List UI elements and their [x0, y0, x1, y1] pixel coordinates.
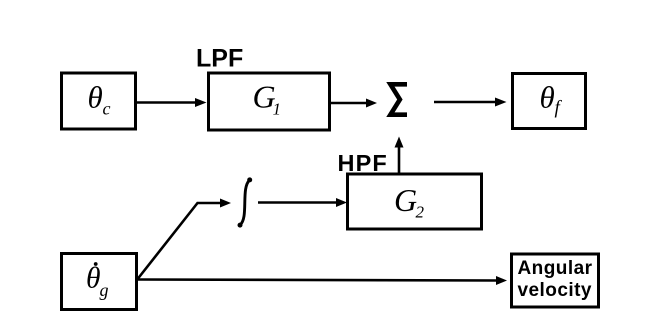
wire arrow G1 to sum: [331, 102, 368, 105]
svg-text:θ: θ: [88, 80, 103, 115]
svg-text:LPF: LPF: [196, 45, 243, 73]
svg-text:θ: θ: [540, 80, 555, 115]
svg-text:1: 1: [273, 100, 282, 119]
box G2 (HPF): [348, 174, 482, 229]
box theta_g (gyro): [62, 254, 137, 310]
wire arrow sum to theta_f: [434, 101, 497, 104]
svg-text:f: f: [555, 98, 563, 119]
wire arrow G2 up to sum: [398, 145, 401, 173]
svg-text:θ: θ: [86, 262, 101, 294]
svg-text:c: c: [103, 99, 111, 119]
svg-text:G: G: [394, 182, 417, 218]
box G1 (LPF): [209, 73, 330, 130]
box angular velocity: [512, 254, 599, 307]
wire arrow gyro to angular velocity: [138, 280, 498, 281]
svg-text:velocity: velocity: [518, 280, 592, 301]
box theta_c: [62, 73, 136, 129]
integrator: [240, 180, 249, 225]
summer sigma: [390, 84, 407, 114]
wire arrow theta_c to G1: [137, 101, 197, 104]
wire diagonal from gyro to integrator: [138, 203, 222, 279]
svg-text:Angular: Angular: [518, 258, 593, 279]
svg-text:g: g: [100, 280, 109, 300]
svg-text:HPF: HPF: [338, 150, 388, 176]
box theta_f: [513, 74, 586, 129]
wire arrow integrator to G2: [258, 201, 338, 204]
svg-text:2: 2: [416, 203, 425, 222]
